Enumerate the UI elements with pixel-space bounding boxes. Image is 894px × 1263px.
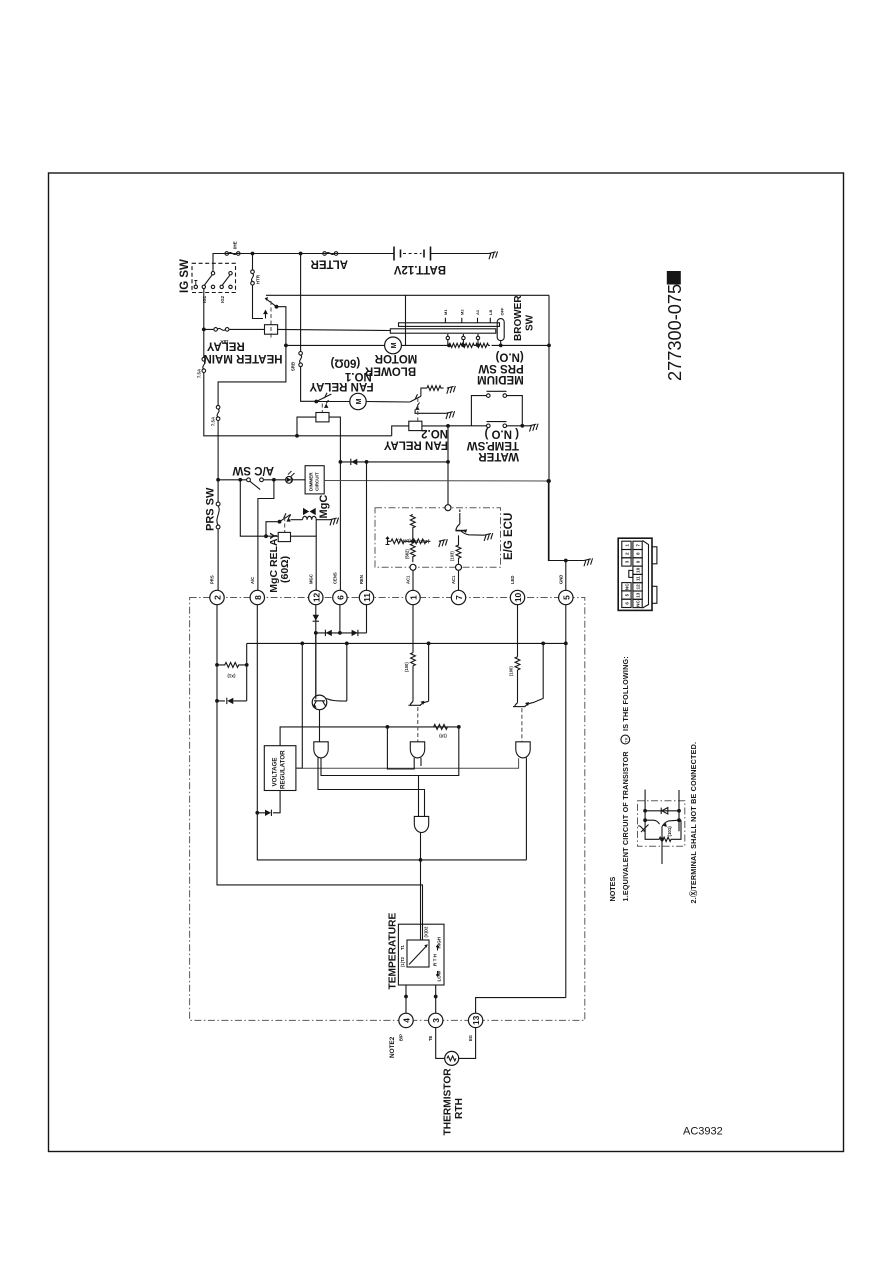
- svg-text:(10): (10): [439, 734, 447, 739]
- wire pin12 diode: [315, 605, 317, 696]
- diode D4: [351, 459, 357, 465]
- svg-text:OFF: OFF: [500, 307, 505, 316]
- fuse ALTER: [323, 252, 338, 256]
- connector cells left column: [622, 541, 633, 607]
- wire VR-gate3 link: [296, 758, 519, 768]
- resistor ladder: [448, 340, 478, 346]
- svg-text:(100): (100): [509, 666, 514, 676]
- node 3: [428, 1013, 443, 1041]
- svg-text:13: 13: [471, 1015, 481, 1025]
- ECU resistor v1: [410, 515, 415, 542]
- resistor (100) a: [411, 653, 416, 666]
- svg-text:1.EQUIVALENT CIRCUIT OF TRANSI: 1.EQUIVALENT CIRCUIT OF TRANSISTOR: [621, 751, 630, 902]
- svg-text:PRS SW: PRS SW: [205, 487, 217, 531]
- relay MgC linkage: [284, 517, 286, 532]
- wire pin5 long vertical: [565, 605, 567, 998]
- slider bars: [399, 323, 500, 327]
- svg-text:(N.O): (N.O): [495, 351, 523, 363]
- svg-text:DIMMER: DIMMER: [309, 472, 314, 491]
- arrow relay actuator: [265, 313, 267, 319]
- svg-text:6: 6: [335, 595, 345, 600]
- svg-text:11: 11: [635, 576, 640, 581]
- box VOLTAGE REGULATOR: [264, 746, 296, 791]
- svg-text:3: 3: [431, 1018, 441, 1023]
- switch A/C: [218, 478, 285, 490]
- battery BATT.12V: [394, 247, 431, 261]
- clutch MgC plates: [303, 508, 316, 515]
- wire pin8 vertical: [257, 605, 526, 860]
- fuse 7.5A prs: [216, 405, 220, 420]
- diode D1: [313, 615, 319, 621]
- diode D6: [265, 810, 271, 816]
- svg-text:FAN RELAY: FAN RELAY: [309, 380, 373, 392]
- node 6: [332, 572, 347, 605]
- node 10: [510, 576, 525, 605]
- svg-text:12: 12: [311, 593, 321, 603]
- node 5: [558, 575, 573, 605]
- svg-text:2.ⓍTERMINAL SHALL NOT BE CONNE: 2.ⓍTERMINAL SHALL NOT BE CONNECTED.: [689, 742, 698, 904]
- svg-text:2: 2: [624, 552, 629, 555]
- svg-text:IG SW: IG SW: [179, 259, 191, 293]
- ECU network: [386, 537, 431, 545]
- connector pin numbers: [624, 544, 640, 607]
- svg-text:9: 9: [635, 560, 640, 563]
- ground main: [583, 558, 594, 566]
- resistor (10): [434, 724, 448, 729]
- svg-text:MEDIUM: MEDIUM: [477, 373, 524, 385]
- svg-text:5: 5: [624, 593, 629, 596]
- diode D3: [352, 630, 358, 636]
- ground battery: [488, 251, 499, 259]
- svg-text:7: 7: [454, 595, 464, 600]
- svg-text:WATER: WATER: [478, 450, 519, 462]
- LED indicator: [286, 471, 295, 483]
- relay FAN NO.1 linkage: [321, 404, 323, 413]
- svg-text:BROWER: BROWER: [513, 295, 524, 341]
- diode D2: [326, 630, 332, 636]
- fuse IHE: [225, 252, 240, 256]
- svg-text:8: 8: [253, 595, 263, 600]
- transistor T2 channel pin1: [412, 605, 414, 653]
- node 11: [359, 575, 374, 605]
- transistor Q1: [315, 633, 317, 697]
- svg-text:11: 11: [362, 593, 372, 602]
- svg-text:MOTOR: MOTOR: [374, 352, 417, 364]
- label 277300-075: [667, 271, 681, 285]
- switch PRS SW: [216, 502, 220, 529]
- svg-text:M: M: [391, 342, 398, 348]
- node V1-fan1coil: [295, 434, 299, 438]
- diode D5: [217, 700, 247, 702]
- wire VR bottom diode: [257, 791, 280, 813]
- svg-text:7: 7: [635, 544, 640, 547]
- svg-text:BATT.12V: BATT.12V: [393, 263, 446, 275]
- svg-text:(45C-15): (45C-15): [412, 539, 429, 544]
- fuse SRB: [299, 352, 303, 367]
- relay FAN NO.2 coil: [409, 421, 422, 430]
- svg-text:HTR: HTR: [256, 274, 261, 284]
- wire gate4 out: [420, 833, 422, 925]
- svg-text:AC1: AC1: [451, 575, 456, 584]
- svg-text:1: 1: [624, 544, 629, 547]
- equivalent circuit TR: [638, 790, 685, 865]
- relay linkage: [270, 301, 272, 340]
- box DIMMER CIRCUIT: [305, 466, 324, 494]
- svg-text:M2: M2: [460, 309, 465, 315]
- wire PRS to pin2: [217, 529, 219, 590]
- svg-text:3: 3: [624, 560, 629, 563]
- transistor T3 channel pin10: [517, 605, 519, 657]
- svg-text:TE: TE: [428, 1035, 433, 1041]
- svg-text:(101): (101): [667, 826, 672, 837]
- border frame: [49, 173, 844, 1152]
- relay FAN NO.2 linkage: [417, 398, 419, 421]
- box E/G ECU: [375, 508, 501, 568]
- wires ECU pins: [413, 570, 459, 590]
- temperature pot: [407, 940, 429, 967]
- svg-text:(100): (100): [404, 662, 409, 672]
- resistor (100) b: [515, 657, 520, 670]
- node 4: [399, 1013, 414, 1041]
- slider knob: [497, 319, 504, 341]
- svg-text:8: 8: [635, 552, 640, 555]
- svg-text:NOTE2: NOTE2: [389, 1036, 396, 1058]
- svg-text:277300-075: 277300-075: [665, 284, 685, 381]
- node 2: [210, 575, 225, 605]
- relay MgC contact: [280, 513, 291, 522]
- svg-text:(169-2): (169-2): [397, 539, 411, 544]
- svg-text:TEMP.SW: TEMP.SW: [467, 439, 519, 451]
- svg-text:TEMPERATURE: TEMPERATURE: [388, 913, 399, 990]
- svg-text:2: 2: [213, 595, 223, 600]
- wires temp out: [406, 985, 436, 1013]
- wire pin13 up: [476, 998, 566, 1014]
- resistor fan2 nc: [427, 386, 444, 391]
- svg-text:GND: GND: [558, 575, 563, 584]
- svg-text:SW: SW: [525, 314, 536, 331]
- switch IG SW box: [192, 263, 236, 292]
- svg-text:(X)D2: (X)D2: [424, 926, 429, 938]
- svg-text:7.5A: 7.5A: [197, 368, 202, 378]
- svg-text:(60Ω): (60Ω): [330, 357, 360, 369]
- fan motor M: [316, 401, 410, 404]
- wire diode row: [316, 605, 367, 633]
- svg-text:R T H: R T H: [433, 953, 438, 966]
- node 12: [308, 574, 323, 604]
- svg-text:10: 10: [513, 593, 523, 603]
- wire bus left leg: [246, 643, 248, 701]
- gate AND1: [314, 742, 328, 758]
- node fan2-watertemp: [446, 424, 450, 428]
- power bus: [247, 642, 566, 644]
- svg-text:RTH: RTH: [454, 1098, 465, 1119]
- svg-text:REN: REN: [359, 575, 364, 584]
- svg-text:(60Ω): (60Ω): [279, 556, 291, 583]
- svg-text:E/G ECU: E/G ECU: [503, 513, 515, 560]
- svg-text:IG1: IG1: [202, 295, 207, 303]
- svg-text:PRS: PRS: [210, 575, 215, 584]
- svg-text:EG: EG: [468, 1035, 473, 1041]
- amplifier boundary chain: [190, 598, 585, 1021]
- thermistor RTH: [436, 1028, 476, 1059]
- svg-text:18A: 18A: [220, 339, 229, 344]
- svg-text:IHE: IHE: [233, 241, 238, 249]
- svg-text:NO.2: NO.2: [421, 427, 448, 439]
- resistor (X1): [217, 662, 247, 667]
- ground fan2 a: [445, 386, 456, 394]
- wire relay top rail: [266, 294, 549, 296]
- ECU resistor v2: [410, 544, 415, 563]
- ground fan2 b: [445, 411, 456, 419]
- wire HTR drop: [253, 254, 264, 319]
- wire gate3 down: [525, 758, 527, 860]
- switch WATER TEMP contact: [448, 422, 530, 428]
- IG SW contacts: [194, 272, 232, 289]
- svg-text:NC: NC: [635, 600, 640, 607]
- svg-text:A/C: A/C: [250, 577, 255, 584]
- svg-text:(X1): (X1): [227, 674, 236, 679]
- svg-text:4: 4: [402, 1018, 412, 1023]
- node top-fan1: [299, 252, 303, 256]
- wire top rail: [213, 254, 491, 273]
- svg-text:(1)T2: (1)T2: [400, 956, 405, 967]
- svg-text:13: 13: [635, 592, 640, 598]
- node fan2-diode: [446, 460, 450, 464]
- diode row no1coil: [340, 461, 448, 463]
- svg-text:A1: A1: [475, 309, 480, 315]
- node motor feed: [284, 344, 288, 348]
- switch BROWER SW box: [401, 295, 549, 345]
- svg-text:ALTER: ALTER: [310, 257, 348, 269]
- clutch MgC coil: [291, 519, 303, 521]
- fuse 7.5A main: [202, 357, 206, 372]
- slider contacts: [446, 334, 480, 340]
- svg-text:THERMISTOR: THERMISTOR: [443, 1068, 454, 1136]
- svg-text:CIRCUIT: CIRCUIT: [315, 472, 320, 491]
- ECU transistor: [456, 510, 485, 536]
- gate AND4 low: [414, 816, 428, 832]
- svg-text:( N.O ): ( N.O ): [484, 428, 519, 440]
- wire gate1 outs: [318, 727, 459, 817]
- switch MEDIUM PRS contact: [471, 391, 522, 426]
- relay FAN NO.2 contact: [410, 388, 427, 402]
- svg-text:LED: LED: [510, 576, 515, 584]
- gate AND3: [516, 742, 530, 758]
- wire brower out: [548, 345, 550, 560]
- motor BLOWER: [286, 344, 385, 346]
- box TEMPERATURE: [398, 924, 444, 985]
- svg-text:M: M: [356, 398, 363, 404]
- svg-text:AC3932: AC3932: [683, 1126, 723, 1138]
- relay HEATER MAIN contact: [267, 299, 277, 307]
- svg-text:HEATER MAIN: HEATER MAIN: [203, 352, 282, 364]
- svg-text:AC1: AC1: [406, 575, 411, 584]
- node 7: [451, 575, 466, 605]
- svg-text:7.5A: 7.5A: [211, 416, 216, 426]
- ground MgC: [329, 518, 340, 526]
- relay MgC coil (60ohm): [278, 532, 290, 541]
- wire Q1 out: [319, 710, 321, 742]
- svg-text:10: 10: [635, 567, 640, 573]
- svg-text:MgC: MgC: [318, 495, 330, 519]
- wire bus-VR right: [296, 643, 302, 768]
- svg-text:SRB: SRB: [291, 362, 296, 371]
- svg-text:A/C SW: A/C SW: [232, 464, 274, 476]
- ECU resistor v3: [456, 535, 461, 564]
- wire fan2 no: [415, 410, 446, 414]
- wire 18A feed: [203, 289, 205, 357]
- svg-text:PRS SW: PRS SW: [478, 362, 524, 374]
- svg-text:6: 6: [624, 602, 629, 605]
- svg-text:NOTES: NOTES: [608, 877, 617, 902]
- svg-text:12: 12: [635, 584, 640, 590]
- wire fan1 vertical: [301, 254, 315, 402]
- svg-text:REGULATOR: REGULATOR: [280, 750, 287, 789]
- wire VR top: [280, 727, 459, 746]
- svg-text:T1: T1: [400, 944, 405, 950]
- relay FAN NO.1 contact: [314, 400, 318, 404]
- fuse 18A: [214, 328, 229, 332]
- svg-text:B/P: B/P: [399, 1034, 404, 1041]
- svg-text:IS THE FOLLOWING:: IS THE FOLLOWING:: [621, 656, 630, 731]
- wire gnd drop: [548, 481, 584, 590]
- svg-text:M1: M1: [443, 309, 448, 315]
- transistor T3: [513, 706, 526, 708]
- wire V1 down: [204, 373, 392, 436]
- svg-text:(562): (562): [405, 549, 410, 559]
- relay FAN NO.1 coil: [316, 413, 329, 422]
- svg-text:IG2: IG2: [220, 295, 225, 303]
- node 13: [468, 1013, 483, 1041]
- svg-text:FAN RELAY: FAN RELAY: [384, 438, 448, 450]
- node top-HTR: [251, 252, 255, 256]
- relay HEATER MAIN coil: [265, 325, 278, 335]
- node 8: [250, 577, 265, 605]
- svg-text:CENS: CENS: [332, 572, 337, 584]
- svg-text:(103): (103): [450, 551, 455, 561]
- svg-text:NC: NC: [624, 583, 629, 590]
- ground watertemp: [528, 424, 539, 432]
- svg-text:TR: TR: [624, 737, 629, 742]
- svg-text:1: 1: [409, 595, 419, 600]
- wire pin2 vertical: [217, 605, 423, 925]
- svg-text:LB: LB: [488, 310, 493, 315]
- svg-text:5: 5: [561, 595, 571, 600]
- transistor T2: [409, 704, 422, 706]
- wire V2 down: [217, 421, 219, 502]
- svg-text:BLOWER: BLOWER: [364, 365, 416, 377]
- wire gate2 link: [387, 727, 421, 769]
- svg-text:VOLTAGE: VOLTAGE: [272, 758, 279, 787]
- wire a/c to mgc relay: [258, 480, 274, 591]
- gate AND2: [410, 742, 424, 758]
- fuse HTR: [251, 270, 255, 285]
- slider ticks: [445, 318, 490, 323]
- node 1: [406, 575, 421, 605]
- wire dimmer out: [324, 480, 548, 483]
- connector cells right column: [633, 541, 642, 607]
- svg-text:MGC: MGC: [308, 574, 313, 584]
- node fan1coil-diode: [339, 460, 343, 464]
